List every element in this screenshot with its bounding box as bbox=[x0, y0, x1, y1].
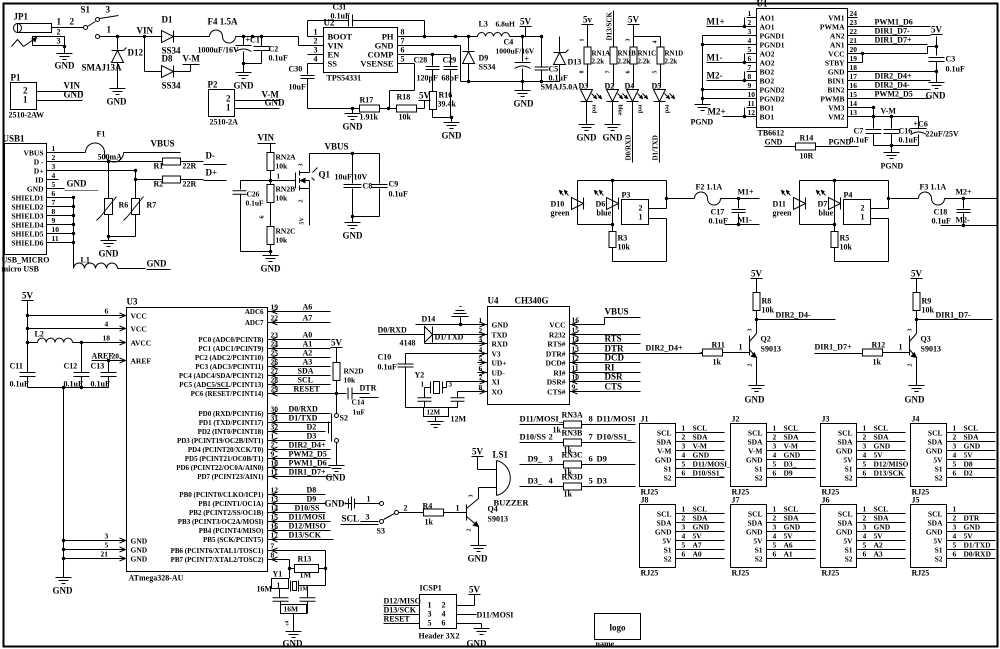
ic U3 left pin clamps bbox=[120, 313, 126, 318]
svg-text:S2: S2 bbox=[664, 555, 672, 564]
svg-text:7: 7 bbox=[479, 373, 483, 382]
svg-text:J5: J5 bbox=[912, 496, 920, 505]
svg-text:6: 6 bbox=[105, 307, 109, 316]
svg-text:6: 6 bbox=[953, 469, 957, 478]
ground output bbox=[522, 82, 524, 91]
svg-text:A2: A2 bbox=[303, 349, 313, 358]
svg-text:2.2k: 2.2k bbox=[665, 58, 678, 66]
svg-text:GND: GND bbox=[131, 546, 148, 555]
svg-text:5: 5 bbox=[682, 460, 686, 469]
svg-text:5V: 5V bbox=[520, 17, 532, 27]
resistor RN2A 10k bbox=[267, 153, 274, 171]
svg-text:23: 23 bbox=[271, 331, 279, 340]
svg-text:RTS: RTS bbox=[605, 334, 622, 344]
svg-text:3: 3 bbox=[748, 27, 752, 36]
svg-text:DTR: DTR bbox=[964, 514, 980, 523]
svg-text:GND: GND bbox=[905, 395, 926, 405]
transistor Q4 S9013 bbox=[466, 505, 468, 521]
diode D13 SMAJ5.0A bbox=[559, 37, 561, 52]
svg-text:D9: D9 bbox=[784, 469, 793, 478]
svg-text:D11/MOSI_: D11/MOSI_ bbox=[693, 460, 732, 469]
svg-text:4: 4 bbox=[105, 320, 109, 329]
svg-text:RN2C: RN2C bbox=[276, 227, 296, 236]
wire F4 to U2 bbox=[236, 36, 299, 38]
svg-text:R11: R11 bbox=[712, 341, 725, 350]
svg-text:3: 3 bbox=[299, 164, 305, 167]
svg-text:3: 3 bbox=[428, 610, 432, 619]
svg-text:DIR1_D7+: DIR1_D7+ bbox=[875, 36, 912, 45]
svg-text:CTS#: CTS# bbox=[547, 388, 566, 397]
svg-text:SDA: SDA bbox=[874, 433, 890, 442]
svg-text:6: 6 bbox=[401, 46, 405, 55]
ground C3 bbox=[929, 82, 945, 84]
svg-text:2: 2 bbox=[863, 433, 867, 442]
svg-text:17: 17 bbox=[271, 531, 279, 540]
svg-text:DCD: DCD bbox=[605, 353, 625, 363]
svg-text:5V: 5V bbox=[964, 451, 974, 460]
svg-text:M2+: M2+ bbox=[708, 107, 726, 117]
svg-text:V-M: V-M bbox=[881, 107, 897, 116]
svg-text:STBY: STBY bbox=[825, 59, 845, 68]
svg-text:RN3B: RN3B bbox=[562, 429, 584, 438]
svg-text:13: 13 bbox=[850, 108, 858, 117]
svg-text:F1: F1 bbox=[97, 130, 106, 139]
switch S2 bbox=[336, 394, 338, 414]
svg-text:2: 2 bbox=[748, 18, 752, 27]
svg-text:V-M: V-M bbox=[657, 447, 671, 456]
LED D11 green bbox=[799, 181, 801, 225]
svg-text:2: 2 bbox=[682, 433, 686, 442]
svg-text:23: 23 bbox=[850, 18, 858, 27]
svg-text:J4: J4 bbox=[912, 415, 920, 424]
svg-text:SCL: SCL bbox=[874, 424, 889, 433]
svg-text:5V: 5V bbox=[22, 291, 34, 301]
svg-text:2.2k: 2.2k bbox=[592, 58, 605, 66]
svg-text:D14: D14 bbox=[422, 315, 436, 324]
svg-text:C8: C8 bbox=[363, 182, 373, 191]
svg-text:5V: 5V bbox=[784, 532, 794, 541]
svg-text:GND: GND bbox=[765, 138, 783, 147]
svg-text:Q2: Q2 bbox=[761, 335, 771, 344]
svg-text:C4: C4 bbox=[504, 38, 514, 47]
svg-text:16M: 16M bbox=[284, 605, 299, 614]
svg-text:5V: 5V bbox=[874, 451, 884, 460]
svg-text:SCL: SCL bbox=[964, 424, 979, 433]
svg-text:2510-2A: 2510-2A bbox=[210, 118, 239, 127]
svg-text:10: 10 bbox=[748, 90, 756, 99]
wire U2 GND to rail bbox=[413, 45, 461, 47]
svg-text:RN2B: RN2B bbox=[276, 185, 296, 194]
svg-text:P2: P2 bbox=[208, 80, 218, 90]
svg-text:SCL: SCL bbox=[928, 429, 943, 438]
svg-text:S1: S1 bbox=[755, 465, 763, 474]
capacitor C3 0.1uF bbox=[929, 57, 945, 59]
resistor RN1A 2.2k bbox=[584, 47, 591, 64]
svg-text:22: 22 bbox=[271, 314, 279, 323]
svg-text:D9: D9 bbox=[479, 54, 489, 63]
svg-text:blue: blue bbox=[617, 105, 623, 116]
svg-text:SCL: SCL bbox=[838, 429, 853, 438]
svg-text:GND: GND bbox=[468, 554, 489, 564]
svg-text:D12/MISO: D12/MISO bbox=[384, 597, 421, 606]
svg-text:2: 2 bbox=[773, 433, 777, 442]
svg-text:c4: c4 bbox=[286, 620, 291, 625]
svg-text:PGND1: PGND1 bbox=[760, 41, 785, 50]
svg-text:R8: R8 bbox=[762, 297, 772, 306]
wire XTAL1 loop bbox=[283, 550, 326, 552]
svg-text:S3: S3 bbox=[377, 527, 385, 536]
svg-text:4: 4 bbox=[653, 41, 659, 44]
svg-text:C9: C9 bbox=[389, 180, 399, 189]
svg-text:BO2: BO2 bbox=[760, 77, 775, 86]
svg-text:7: 7 bbox=[271, 542, 275, 551]
svg-text:M1-: M1- bbox=[707, 53, 723, 63]
svg-text:GND: GND bbox=[746, 528, 763, 537]
svg-text:1: 1 bbox=[226, 103, 231, 113]
svg-text:SHIELD5: SHIELD5 bbox=[11, 230, 43, 239]
svg-text:10uF 10V: 10uF 10V bbox=[335, 173, 368, 182]
svg-text:SHIELD4: SHIELD4 bbox=[11, 221, 43, 230]
svg-text:D3_: D3_ bbox=[528, 476, 543, 486]
svg-text:6: 6 bbox=[682, 550, 686, 559]
svg-text:BIN1: BIN1 bbox=[827, 77, 844, 86]
svg-text:C11: C11 bbox=[10, 362, 23, 371]
svg-text:1: 1 bbox=[863, 424, 867, 433]
svg-text:R18: R18 bbox=[397, 93, 411, 102]
ground RN2 bbox=[270, 252, 272, 256]
svg-text:22: 22 bbox=[850, 27, 858, 36]
svg-text:C17: C17 bbox=[711, 208, 725, 217]
wire jack pin1 to S1 bbox=[52, 27, 84, 29]
svg-text:4: 4 bbox=[863, 451, 867, 460]
svg-text:S1: S1 bbox=[664, 546, 672, 555]
svg-text:D3: D3 bbox=[597, 476, 607, 486]
svg-text:22uF/25V: 22uF/25V bbox=[926, 130, 960, 139]
svg-text:VIN: VIN bbox=[258, 133, 275, 143]
svg-text:A3: A3 bbox=[874, 550, 883, 559]
svg-text:1: 1 bbox=[52, 144, 56, 153]
wire D8 to V-M bbox=[174, 71, 191, 73]
svg-text:RESET: RESET bbox=[294, 385, 321, 394]
svg-text:R9: R9 bbox=[922, 297, 932, 306]
svg-text:9: 9 bbox=[572, 383, 576, 392]
svg-text:RN1D: RN1D bbox=[665, 50, 684, 58]
svg-text:D11: D11 bbox=[773, 200, 786, 209]
svg-text:1k: 1k bbox=[713, 358, 722, 367]
wire PGND bus bbox=[703, 35, 747, 37]
svg-text:D0/RXD: D0/RXD bbox=[625, 135, 633, 161]
svg-text:1: 1 bbox=[639, 213, 643, 222]
svg-text:RJ25: RJ25 bbox=[912, 569, 930, 578]
wire DIR2_D4+ to R11 bbox=[699, 353, 703, 354]
ic U3 right pins bbox=[207, 388, 229, 390]
svg-text:PC2 (ADC2/PCINT10): PC2 (ADC2/PCINT10) bbox=[195, 354, 264, 362]
svg-text:GND: GND bbox=[655, 528, 672, 537]
svg-text:VCC: VCC bbox=[131, 312, 147, 321]
svg-text:3: 3 bbox=[953, 442, 957, 451]
svg-text:C2: C2 bbox=[269, 45, 279, 54]
svg-text:DIR2_D4+: DIR2_D4+ bbox=[875, 72, 912, 81]
svg-text:6: 6 bbox=[626, 71, 632, 74]
wire VCC pins bbox=[28, 315, 127, 317]
svg-text:GND: GND bbox=[784, 523, 801, 532]
svg-text:Header 3X2: Header 3X2 bbox=[419, 632, 460, 641]
svg-text:DIR2_D4-: DIR2_D4- bbox=[776, 311, 811, 320]
svg-text:RTS#: RTS# bbox=[547, 340, 565, 349]
svg-text:GND: GND bbox=[926, 528, 943, 537]
svg-text:500mA: 500mA bbox=[98, 153, 123, 162]
fuse F1 500mA bbox=[47, 152, 86, 154]
wire P4 bottom bbox=[800, 224, 835, 226]
svg-text:R5: R5 bbox=[840, 234, 850, 243]
svg-text:2: 2 bbox=[404, 504, 408, 513]
svg-text:0.1uF: 0.1uF bbox=[10, 380, 29, 389]
svg-text:15: 15 bbox=[572, 326, 580, 335]
svg-text:GND: GND bbox=[131, 537, 148, 546]
svg-text:SDA: SDA bbox=[837, 438, 853, 447]
svg-text:Y2: Y2 bbox=[415, 371, 425, 380]
resistor RN2B 10k bbox=[270, 181, 272, 185]
svg-text:D8: D8 bbox=[307, 486, 317, 495]
svg-text:GND: GND bbox=[514, 99, 535, 109]
svg-text:A2: A2 bbox=[874, 541, 883, 550]
ground R16 C29 bbox=[451, 118, 453, 123]
svg-text:0.1uF: 0.1uF bbox=[269, 54, 288, 63]
svg-text:5: 5 bbox=[479, 354, 483, 363]
svg-text:22R: 22R bbox=[183, 180, 197, 189]
svg-text:1: 1 bbox=[739, 343, 743, 352]
svg-text:BO1: BO1 bbox=[760, 113, 775, 122]
svg-text:VIN: VIN bbox=[137, 26, 154, 36]
capacitor C9 0.1uF bbox=[379, 154, 381, 184]
svg-text:SCL: SCL bbox=[784, 505, 799, 514]
ground C8 C9 bbox=[352, 217, 354, 223]
svg-text:GND: GND bbox=[283, 639, 304, 649]
svg-text:9: 9 bbox=[271, 450, 275, 459]
svg-text:green: green bbox=[773, 209, 793, 218]
svg-text:C16: C16 bbox=[899, 127, 913, 136]
svg-text:R13: R13 bbox=[298, 555, 312, 564]
svg-text:0.1uF: 0.1uF bbox=[246, 199, 265, 208]
svg-text:6: 6 bbox=[52, 189, 56, 198]
LED D7 blue bbox=[834, 181, 836, 225]
svg-text:D -: D - bbox=[34, 158, 44, 167]
svg-text:4: 4 bbox=[442, 610, 446, 619]
svg-text:GND: GND bbox=[53, 586, 74, 596]
svg-text:D11/MOSI_: D11/MOSI_ bbox=[520, 414, 564, 424]
svg-text:D3_: D3_ bbox=[784, 460, 797, 469]
svg-text:A7: A7 bbox=[693, 541, 702, 550]
transistor Q2 S9013 bbox=[756, 320, 758, 334]
wire gnd bus u3 bbox=[63, 388, 65, 578]
svg-text:7: 7 bbox=[52, 198, 56, 207]
svg-text:10k: 10k bbox=[399, 113, 412, 122]
svg-text:3: 3 bbox=[863, 523, 867, 532]
wire M1+ pins bbox=[744, 18, 746, 27]
svg-text:A0: A0 bbox=[303, 331, 313, 340]
svg-text:10k: 10k bbox=[276, 194, 289, 203]
svg-text:68pF: 68pF bbox=[442, 74, 459, 83]
svg-text:D2: D2 bbox=[964, 469, 973, 478]
svg-text:F4 1.5A: F4 1.5A bbox=[208, 17, 238, 27]
svg-text:3: 3 bbox=[626, 39, 632, 42]
svg-text:SCL: SCL bbox=[928, 510, 943, 519]
wire P4 top rail bbox=[800, 180, 889, 182]
net labels DIR2 PWM2 bbox=[858, 80, 873, 82]
svg-text:SHIELD6: SHIELD6 bbox=[11, 239, 43, 248]
svg-text:10: 10 bbox=[572, 373, 580, 382]
svg-text:S2: S2 bbox=[755, 555, 763, 564]
svg-text:1: 1 bbox=[107, 25, 112, 35]
svg-text:C7: C7 bbox=[854, 127, 864, 136]
svg-text:GND: GND bbox=[147, 259, 168, 269]
svg-text:2: 2 bbox=[861, 204, 865, 213]
svg-text:3: 3 bbox=[52, 162, 56, 171]
svg-text:SCL: SCL bbox=[298, 376, 314, 385]
svg-text:D1/TXD: D1/TXD bbox=[964, 541, 992, 550]
svg-text:6: 6 bbox=[953, 550, 957, 559]
ground Q4 bbox=[471, 545, 487, 547]
node D1/TXD bbox=[659, 102, 661, 163]
svg-text:10R: 10R bbox=[800, 152, 814, 161]
svg-text:3: 3 bbox=[314, 46, 318, 55]
svg-text:17: 17 bbox=[850, 72, 858, 81]
svg-text:5V: 5V bbox=[933, 456, 943, 465]
svg-text:GND: GND bbox=[67, 179, 88, 189]
svg-text:10k: 10k bbox=[344, 376, 357, 385]
svg-text:S2: S2 bbox=[935, 555, 943, 564]
svg-text:GND: GND bbox=[234, 81, 255, 91]
svg-text:2: 2 bbox=[748, 364, 754, 367]
svg-text:DSR#: DSR# bbox=[547, 378, 566, 387]
svg-text:120pF: 120pF bbox=[417, 74, 438, 83]
svg-text:D10/SS1_: D10/SS1_ bbox=[597, 432, 633, 442]
svg-text:14: 14 bbox=[850, 99, 858, 108]
svg-text:D1: D1 bbox=[162, 15, 173, 25]
svg-text:ATmega328-AU: ATmega328-AU bbox=[129, 574, 184, 583]
svg-text:3: 3 bbox=[106, 5, 111, 15]
svg-text:RN1B: RN1B bbox=[618, 50, 637, 58]
svg-text:8: 8 bbox=[589, 414, 593, 424]
svg-text:7: 7 bbox=[401, 37, 405, 46]
ground Y1 bbox=[286, 631, 302, 633]
wire M1- pins bbox=[744, 54, 746, 63]
svg-text:2: 2 bbox=[639, 204, 643, 213]
svg-text:J6: J6 bbox=[822, 496, 830, 505]
svg-text:R1: R1 bbox=[154, 162, 164, 171]
svg-text:2: 2 bbox=[863, 514, 867, 523]
svg-text:1: 1 bbox=[953, 424, 957, 433]
svg-text:10: 10 bbox=[271, 459, 279, 468]
resistor R11 1k bbox=[703, 349, 723, 356]
svg-text:5V: 5V bbox=[933, 537, 943, 546]
svg-text:PWM2_D5: PWM2_D5 bbox=[289, 450, 327, 459]
svg-text:UD-: UD- bbox=[492, 369, 506, 378]
wire S3 to R4 bbox=[399, 512, 424, 514]
svg-text:DSR: DSR bbox=[605, 372, 624, 382]
svg-text:1: 1 bbox=[748, 9, 752, 18]
svg-text:ID: ID bbox=[35, 176, 44, 185]
svg-text:SDA: SDA bbox=[964, 433, 980, 442]
svg-text:M1+: M1+ bbox=[738, 188, 755, 197]
wire D1 to fuse bbox=[174, 36, 210, 38]
svg-text:U1: U1 bbox=[757, 0, 768, 9]
svg-text:D+: D+ bbox=[34, 167, 44, 176]
svg-text:JP1: JP1 bbox=[14, 12, 29, 22]
LED D6 blue bbox=[612, 181, 614, 225]
svg-text:V3: V3 bbox=[492, 350, 501, 359]
svg-text:R2: R2 bbox=[154, 180, 164, 189]
svg-text:AO1: AO1 bbox=[760, 14, 775, 23]
svg-text:D10/SS: D10/SS bbox=[295, 504, 320, 513]
svg-text:5: 5 bbox=[748, 45, 752, 54]
svg-text:C5: C5 bbox=[549, 65, 559, 74]
svg-text:D8: D8 bbox=[964, 460, 973, 469]
svg-text:SDA: SDA bbox=[298, 367, 314, 376]
svg-text:A6: A6 bbox=[784, 541, 793, 550]
wire P3 bottom bbox=[578, 224, 613, 226]
svg-text:PGND2: PGND2 bbox=[760, 95, 785, 104]
wire P3 top rail bbox=[578, 180, 667, 182]
svg-text:R17: R17 bbox=[360, 96, 374, 105]
capacitor Y1 caps bbox=[279, 589, 281, 598]
svg-text:LS1: LS1 bbox=[493, 450, 509, 460]
svg-text:SCL: SCL bbox=[342, 514, 360, 524]
svg-text:D0/RXD: D0/RXD bbox=[964, 550, 992, 559]
svg-text:4: 4 bbox=[682, 451, 686, 460]
svg-text:PC1 (ADC1/PCINT9): PC1 (ADC1/PCINT9) bbox=[198, 345, 264, 353]
svg-text:RESET: RESET bbox=[384, 615, 411, 624]
svg-text:SCL: SCL bbox=[748, 510, 763, 519]
ground U3 bbox=[56, 577, 72, 579]
svg-text:D1/TXD: D1/TXD bbox=[289, 414, 318, 423]
svg-text:C30: C30 bbox=[289, 65, 303, 74]
LED D10 green bbox=[577, 181, 579, 225]
capacitor Y2 caps bbox=[418, 397, 432, 399]
svg-text:P3: P3 bbox=[622, 191, 631, 200]
svg-text:6: 6 bbox=[589, 454, 593, 464]
svg-text:A3: A3 bbox=[303, 358, 313, 367]
svg-text:3: 3 bbox=[549, 454, 553, 464]
svg-text:GND: GND bbox=[442, 131, 463, 141]
net labels U1 right bbox=[858, 26, 873, 28]
svg-text:R7: R7 bbox=[147, 201, 157, 210]
svg-text:25: 25 bbox=[271, 349, 279, 358]
svg-text:30: 30 bbox=[271, 405, 279, 414]
resistor R1 22R bbox=[47, 161, 163, 163]
ground Y2 bbox=[428, 421, 444, 423]
svg-text:GND: GND bbox=[343, 122, 364, 132]
svg-text:D13/SCK: D13/SCK bbox=[289, 531, 322, 540]
svg-text:VBUS: VBUS bbox=[151, 139, 175, 149]
svg-text:SHIELD3: SHIELD3 bbox=[11, 212, 43, 221]
svg-text:DIR1_D7-: DIR1_D7- bbox=[875, 27, 910, 36]
svg-text:5V: 5V bbox=[931, 25, 943, 35]
svg-text:15: 15 bbox=[850, 90, 858, 99]
svg-text:15: 15 bbox=[271, 513, 279, 522]
svg-text:3: 3 bbox=[105, 532, 109, 541]
svg-text:18: 18 bbox=[850, 63, 858, 72]
svg-text:GND: GND bbox=[27, 185, 44, 194]
svg-text:16: 16 bbox=[850, 81, 858, 90]
svg-text:U4: U4 bbox=[488, 296, 499, 306]
svg-text:1: 1 bbox=[367, 495, 371, 504]
svg-text:11: 11 bbox=[572, 364, 579, 373]
svg-text:+C1: +C1 bbox=[246, 36, 260, 45]
wire VSENSE divider bbox=[413, 63, 415, 65]
svg-text:SCL: SCL bbox=[838, 510, 853, 519]
wire ICSP gnd bbox=[457, 623, 482, 625]
